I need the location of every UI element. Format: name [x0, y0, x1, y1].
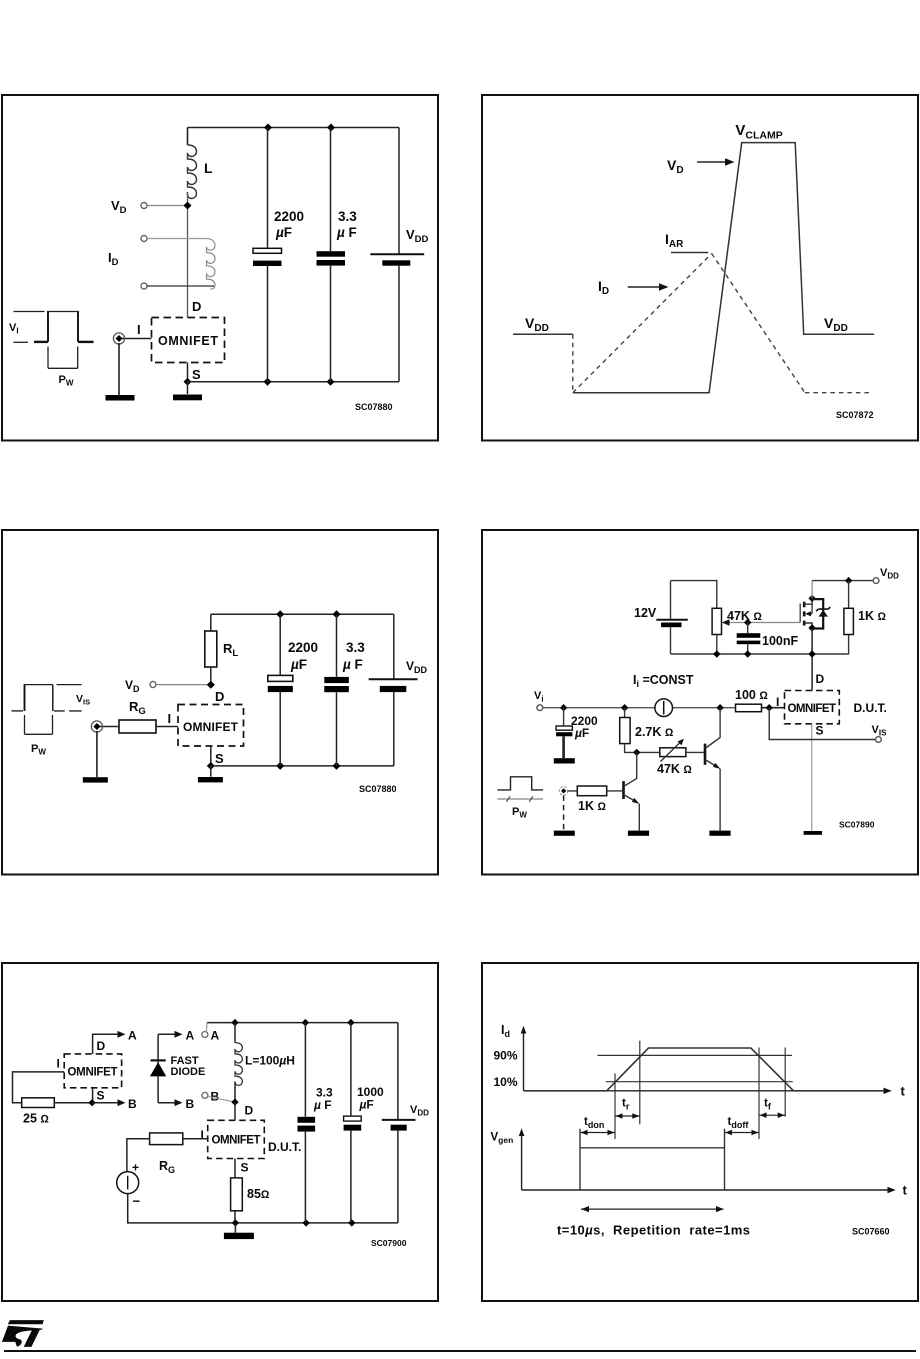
svg-text:PW: PW [31, 743, 46, 757]
ground input [83, 777, 108, 782]
mosfet Q3 channel segments [803, 602, 806, 626]
svg-text:VCLAMP: VCLAMP [735, 122, 782, 142]
svg-text:I: I [137, 322, 141, 337]
wire VIS tap [769, 708, 875, 740]
svg-text:tf: tf [764, 1098, 772, 1112]
ground S [173, 395, 202, 401]
svg-text:D: D [816, 672, 825, 686]
wire S to bottom bus [210, 746, 212, 766]
svg-text:Ii =CONST: Ii =CONST [633, 673, 694, 689]
mosfet Q3 drain wire [804, 623, 812, 628]
wire 12V loop top [671, 581, 717, 609]
axis t horizontal bottom [522, 1189, 889, 1191]
svg-text:RG: RG [159, 1159, 175, 1175]
svg-text:OMNIFET: OMNIFET [183, 720, 239, 734]
pulse PW symbol [497, 777, 543, 790]
mosfet Q3 body arrow [810, 604, 813, 614]
resistor RL [210, 614, 212, 631]
node inductor / D junction [231, 1098, 238, 1105]
svg-text:PW: PW [59, 374, 74, 388]
svg-text:100 Ω: 100 Ω [735, 688, 768, 702]
node bottom 3.3uF [327, 378, 335, 386]
node rail inductor [231, 1019, 238, 1026]
svg-text:VD: VD [111, 198, 127, 216]
node bottom 2200uF [276, 762, 284, 770]
omnifet U1 dashed box [152, 318, 225, 363]
ground main [234, 1223, 236, 1233]
svg-text:1K Ω: 1K Ω [858, 609, 886, 623]
svg-text:VDD: VDD [410, 1104, 429, 1118]
resistor 25 ohm [22, 1098, 55, 1108]
svg-text:IAR: IAR [665, 231, 684, 250]
inductor L [187, 128, 189, 146]
svg-text:VDD: VDD [824, 315, 848, 334]
wire 100ohm to I pin [762, 707, 785, 709]
svg-text:SC07660: SC07660 [852, 1227, 890, 1237]
waveform Vgen pulse [580, 1129, 725, 1190]
fast diode D1 branch [157, 1034, 159, 1102]
svg-text:−: − [133, 1194, 141, 1209]
svg-text:100nF: 100nF [762, 634, 798, 648]
wire input to ground [96, 731, 98, 777]
axis Vgen vertical [521, 1133, 523, 1190]
svg-text:D: D [192, 299, 201, 314]
svg-text:ID: ID [108, 250, 119, 268]
input terminal bullseye [113, 333, 124, 344]
wire inductor to D [187, 192, 189, 318]
node right BJT collector [716, 704, 723, 711]
capacitor C4 3.3uF [304, 1023, 306, 1117]
wire dashed to ground [563, 795, 565, 830]
node junction top bus / 3.3uF [327, 124, 335, 132]
wire 47K to Q2 base [686, 751, 704, 753]
resistor RG [119, 720, 156, 733]
reference line 10% [606, 1081, 793, 1083]
node rail 3.3uF bottom [302, 1219, 309, 1226]
svg-text:µF: µF [290, 657, 307, 672]
node top 3.3uF [333, 610, 341, 618]
svg-text:47K Ω: 47K Ω [727, 609, 762, 623]
figure 4 border frame [482, 530, 918, 875]
capacitor 100nF [747, 623, 749, 634]
pulse source VI waveform [14, 311, 45, 313]
wire drain down to DUT [811, 628, 813, 691]
figure 3 border frame [2, 530, 438, 875]
fast diode D1 [151, 1059, 166, 1061]
terminal VIS [876, 737, 882, 743]
wire U3 source down [92, 1088, 94, 1103]
svg-text:+: + [132, 1161, 139, 1175]
figure 5 border frame [2, 963, 438, 1301]
figure 6 border frame [482, 963, 918, 1301]
svg-text:47K Ω: 47K Ω [657, 762, 692, 776]
svg-text:VDD: VDD [880, 567, 899, 581]
capacitor C2 3.3uF [336, 614, 338, 677]
svg-text:L=100µH: L=100µH [245, 1054, 295, 1068]
node rail 3.3uF [302, 1019, 309, 1026]
battery 12V [670, 581, 672, 619]
svg-text:12V: 12V [634, 606, 657, 620]
svg-text:2200: 2200 [274, 209, 304, 224]
svg-text:90%: 90% [494, 1049, 518, 1063]
svg-text:OMNIFET: OMNIFET [158, 334, 218, 348]
pulse width PW bracket [25, 715, 53, 734]
node top 2200uF [276, 610, 284, 618]
footer rule [4, 1350, 916, 1352]
svg-text:Vi: Vi [534, 690, 544, 704]
battery VDD [398, 128, 400, 254]
node rail 1000uF bottom [348, 1219, 355, 1226]
capacitor C2 3.3uF [330, 128, 332, 252]
zener D2 loop [812, 599, 823, 628]
svg-text:S: S [215, 751, 224, 766]
arrow repetition period [581, 1208, 724, 1210]
omnifet U2 DUT dashed box [785, 691, 840, 724]
resistor 100 ohm [736, 704, 762, 712]
svg-text:2200: 2200 [288, 640, 318, 655]
svg-text:25 Ω: 25 Ω [23, 1112, 49, 1126]
wire VD to drain node [147, 205, 188, 207]
svg-text:I: I [776, 695, 779, 709]
tick line 90% fall [758, 1048, 760, 1140]
pulse source VIS waveform [24, 685, 26, 711]
wire source to bottom rail [128, 1194, 398, 1223]
omnifet U4 DUT dashed box [208, 1120, 265, 1158]
waveform Id trapezoid [524, 1048, 885, 1091]
node S/B junction [88, 1099, 95, 1106]
svg-text:VDD: VDD [525, 315, 549, 334]
svg-text:VD: VD [125, 678, 140, 694]
svg-text:t: t [901, 1084, 906, 1099]
svg-text:DIODE: DIODE [171, 1066, 206, 1078]
svg-text:3.3: 3.3 [346, 640, 365, 655]
battery VDD [393, 614, 395, 679]
capacitor C1 2200uF [267, 128, 269, 249]
capacitor C3 2200uF [563, 708, 565, 726]
terminal VD [150, 682, 156, 688]
svg-text:µ F: µ F [313, 1098, 332, 1112]
node rail 85ohm [232, 1219, 239, 1226]
svg-text:SC07900: SC07900 [371, 1238, 407, 1248]
wire RG left to source [127, 1139, 150, 1172]
terminal A circle [202, 1032, 208, 1038]
wire top rail VDD [812, 580, 873, 582]
battery V2 VDD [397, 1023, 399, 1120]
node rail 1000uF [347, 1019, 354, 1026]
svg-text:B: B [186, 1097, 195, 1111]
svg-text:OMNIFET: OMNIFET [788, 703, 837, 715]
wire S to bottom bus [187, 363, 189, 382]
node junction top bus / 2200uF [264, 124, 272, 132]
wire ID lower from pickup coil [147, 285, 214, 287]
ST logo [0, 1316, 60, 1352]
svg-text:VDD: VDD [406, 227, 429, 245]
mosfet Q3 source wire [804, 598, 812, 604]
capacitor C5 1000uF [350, 1023, 352, 1116]
wire 25ohm to S node [54, 1102, 92, 1104]
wire U3 input loop [13, 1072, 65, 1103]
svg-text:Id: Id [501, 1023, 510, 1039]
svg-text:tdoff: tdoff [728, 1116, 750, 1130]
svg-text:D.U.T.: D.U.T. [854, 701, 887, 715]
terminal VDD [873, 578, 879, 584]
arrow tdon [580, 1132, 615, 1134]
capacitor C1 2200uF [279, 614, 281, 675]
svg-text:A: A [128, 1029, 137, 1043]
svg-text:I: I [201, 1128, 204, 1142]
waveform ID dashed tail [805, 392, 870, 394]
svg-text:OMNIFET: OMNIFET [212, 1135, 261, 1147]
wire node to B [92, 1102, 118, 1104]
wire bottom bus [211, 765, 394, 767]
svg-text:3.3: 3.3 [338, 209, 357, 224]
wire top bus [188, 127, 400, 129]
wire VD to drain node [156, 684, 211, 686]
svg-text:ID: ID [598, 278, 609, 297]
svg-text:I: I [168, 711, 172, 726]
svg-text:D: D [97, 1039, 106, 1053]
waveform VD solid trace [513, 333, 573, 335]
wire top rail [207, 1022, 398, 1024]
mosfet Q3 gate bar [799, 603, 801, 622]
wire S to ground [187, 382, 189, 394]
svg-text:A: A [211, 1029, 220, 1043]
potentiometer 47K [712, 608, 721, 634]
svg-text:tdon: tdon [584, 1116, 604, 1130]
inductor L1 100uH [234, 1023, 236, 1043]
svg-text:SC07872: SC07872 [836, 410, 874, 420]
node wiper junction [744, 619, 751, 626]
resistor 85 ohm [231, 1178, 243, 1211]
figure 2 border frame [482, 95, 918, 441]
node VD junction [207, 681, 215, 689]
svg-text:Vgen: Vgen [491, 1132, 514, 1146]
wire A to rail [205, 1023, 208, 1032]
svg-text:VI: VI [9, 322, 19, 336]
wire S to ground [210, 766, 212, 777]
svg-text:D.U.T.: D.U.T. [268, 1140, 301, 1154]
wire main input rail [543, 707, 736, 709]
svg-text:S: S [241, 1161, 249, 1175]
waveform ID dashed rise [573, 254, 712, 393]
svg-text:B: B [128, 1097, 137, 1111]
wire RG to I pin [156, 726, 178, 728]
svg-text:2.7K Ω: 2.7K Ω [635, 725, 674, 739]
svg-text:B: B [211, 1090, 220, 1104]
wire bullseye to RG [99, 726, 119, 728]
node bottom 3.3uF [333, 762, 341, 770]
svg-text:L: L [204, 160, 213, 176]
arrow tdoff [725, 1132, 760, 1134]
svg-text:S: S [192, 367, 201, 382]
svg-text:S: S [97, 1089, 105, 1103]
node VD junction [184, 202, 192, 210]
svg-text:µF: µF [574, 726, 589, 740]
transistor Q2 [704, 744, 707, 765]
svg-text:I: I [57, 1057, 60, 1071]
svg-text:µ F: µ F [336, 225, 357, 240]
svg-text:t=10µs, Repetition rate=1ms: t=10µs, Repetition rate=1ms [557, 1223, 750, 1238]
omnifet U3 dashed box [64, 1054, 121, 1088]
svg-text:PW: PW [512, 806, 527, 820]
node IAR peak reference line [671, 252, 708, 254]
axis Id vertical [523, 1031, 525, 1091]
voltage source V1 [117, 1172, 139, 1194]
waveform ID dashed drop [572, 334, 574, 392]
svg-text:SC07880: SC07880 [355, 402, 393, 412]
svg-text:A: A [186, 1029, 195, 1043]
resistor 2.7K [624, 708, 626, 718]
terminal ID lower [141, 283, 147, 289]
svg-text:1K Ω: 1K Ω [578, 799, 606, 813]
node S junction [184, 378, 192, 386]
node bottom 2200uF [264, 378, 272, 386]
node 12V bottom rail [671, 635, 849, 655]
arrow tr [615, 1115, 640, 1117]
svg-text:t: t [903, 1183, 908, 1198]
arrow tf [759, 1114, 785, 1116]
reference line 90% [598, 1054, 793, 1056]
zener D2 [816, 607, 830, 611]
current source I1 [655, 699, 673, 717]
svg-text:SC07890: SC07890 [839, 820, 875, 830]
svg-text:tr: tr [622, 1098, 630, 1112]
wire S to 85ohm [234, 1159, 236, 1178]
svg-text:µF: µF [359, 1098, 374, 1112]
svg-text:S: S [816, 724, 824, 738]
figure 1 border frame [2, 95, 438, 441]
svg-text:RG: RG [129, 699, 146, 717]
svg-text:D: D [245, 1104, 254, 1118]
svg-text:µF: µF [275, 225, 292, 240]
wire input to ground [118, 343, 120, 395]
wire U3 drain to A [93, 1034, 119, 1054]
omnifet U1 dashed box [178, 705, 244, 747]
node 2.7K / collector junction [633, 749, 640, 756]
wire RG to I pin [183, 1138, 208, 1140]
wire top bus [211, 613, 394, 615]
wire bottom bus [188, 381, 400, 383]
resistor 1K pullup [848, 581, 850, 609]
axis t horizontal top [524, 1090, 885, 1092]
node S junction [207, 762, 215, 770]
svg-text:10%: 10% [494, 1075, 518, 1089]
variable resistor 47K [660, 748, 686, 757]
tick line 10% fall [784, 1048, 786, 1117]
svg-text:D: D [215, 689, 224, 704]
svg-text:85Ω: 85Ω [247, 1187, 270, 1201]
input terminal dashed [559, 787, 568, 796]
tick line 10% rise [614, 1073, 616, 1139]
ground S [198, 777, 223, 782]
input terminal bullseye [91, 721, 102, 732]
resistor RG [150, 1133, 183, 1145]
waveform ID dashed fall [712, 254, 805, 393]
svg-text:SC07880: SC07880 [359, 784, 397, 794]
wire S to ground [811, 724, 813, 831]
current pickup coil around drain wire [207, 246, 216, 290]
wire ID upper to pickup coil [147, 239, 215, 246]
wire D to DUT [234, 1102, 236, 1120]
transistor Q1 [622, 781, 625, 799]
tick line 90% rise [639, 1041, 641, 1125]
svg-text:VIS: VIS [76, 693, 90, 707]
terminal ID upper [141, 236, 147, 242]
svg-text:VDD: VDD [406, 659, 428, 675]
resistor 1K base [577, 786, 606, 796]
svg-text:RL: RL [223, 641, 238, 659]
terminal VD [141, 203, 147, 209]
svg-text:VD: VD [667, 157, 684, 176]
ground input [106, 395, 135, 401]
wire input to I pin [121, 338, 152, 340]
svg-text:µ F: µ F [342, 657, 363, 672]
wire B to inductor node [208, 1096, 235, 1102]
svg-text:VIS: VIS [872, 724, 888, 738]
svg-text:OMNIFET: OMNIFET [68, 1067, 118, 1079]
pulse width PW bracket [48, 347, 78, 369]
terminal B circle [202, 1092, 208, 1098]
wiper wire with arrow [727, 622, 800, 624]
